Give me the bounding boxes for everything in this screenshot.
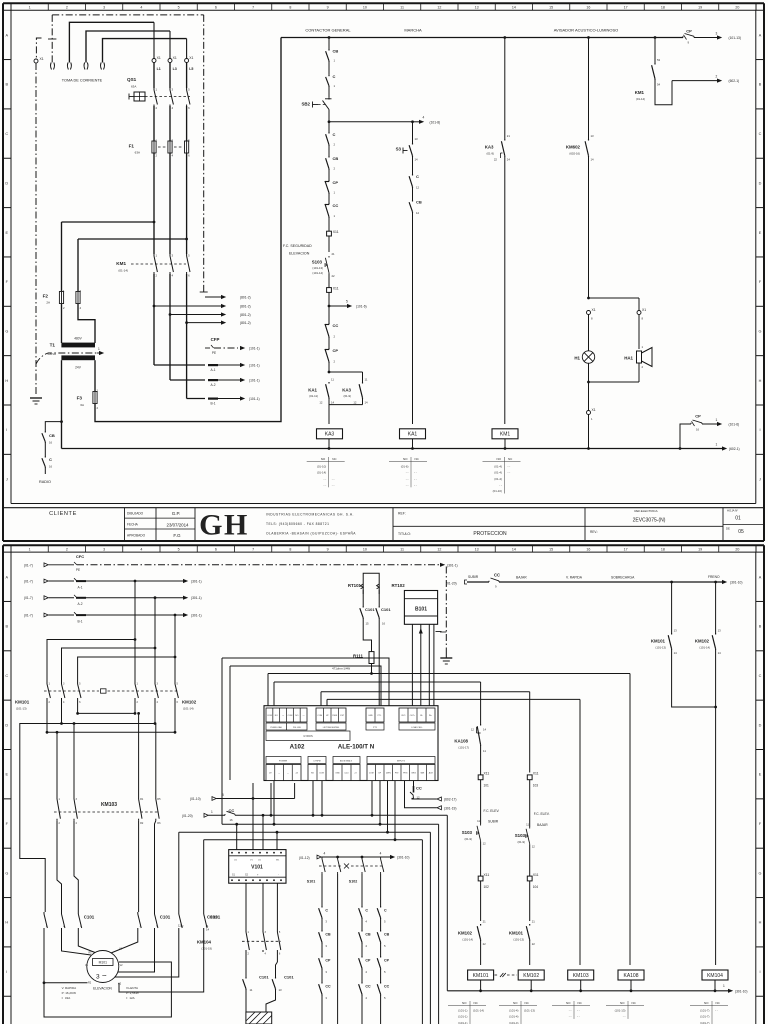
- pushbutton S3: [412, 143, 414, 145]
- svg-text:2: 2: [66, 6, 68, 10]
- svg-text:(101-13): (101-13): [655, 646, 666, 650]
- svg-text:C101: C101: [365, 607, 375, 612]
- svg-text:KM101: KM101: [15, 700, 30, 705]
- phase drops to KM101/KM102 banks: [134, 581, 136, 682]
- svg-text:(01-4): (01-4): [494, 471, 502, 475]
- toma de corriente inlet hooks: [50, 63, 53, 70]
- contactor KM104 contacts: [245, 883, 247, 930]
- svg-text:22: 22: [494, 158, 498, 162]
- svg-text:(101-7): (101-7): [700, 1015, 709, 1019]
- svg-text:---: ---: [303, 715, 305, 717]
- svg-text:GND: GND: [368, 715, 373, 717]
- svg-text:11: 11: [400, 6, 404, 10]
- svg-text:1: 1: [211, 810, 213, 814]
- svg-text:C: C: [5, 674, 8, 678]
- svg-text:21: 21: [332, 252, 336, 256]
- svg-text:TAR: TAR: [420, 772, 424, 775]
- svg-text:4: 4: [423, 116, 425, 120]
- svg-text:17: 17: [624, 6, 628, 10]
- svg-text:APROBADO: APROBADO: [127, 534, 146, 538]
- svg-text:L3: L3: [173, 67, 177, 71]
- svg-text:5: 5: [346, 300, 348, 304]
- svg-text:DWN: DWN: [332, 715, 337, 717]
- svg-text:HA1: HA1: [624, 356, 633, 361]
- 0V drop to rail: [446, 815, 448, 991]
- svg-text:CB: CB: [384, 933, 390, 937]
- svg-text:INDUSTRIAS ELECTROMECANICAS GH: INDUSTRIAS ELECTROMECANICAS GH. S.A.: [266, 512, 354, 516]
- svg-text:I: I: [6, 970, 7, 974]
- svg-text:NO: NO: [321, 457, 326, 461]
- svg-text:14: 14: [206, 928, 210, 932]
- svg-text:(301-19): (301-19): [444, 806, 456, 810]
- svg-text:(602-1): (602-1): [729, 79, 740, 83]
- svg-text:- -: - -: [569, 1015, 572, 1019]
- svg-text:KM104: KM104: [707, 973, 723, 979]
- svg-text:S103: S103: [462, 830, 473, 835]
- svg-text:KM103: KM103: [101, 802, 117, 808]
- coil row KM101 KM102 KM103 KA108 KM104: [468, 970, 494, 980]
- svg-text:C: C: [365, 909, 368, 913]
- svg-text:(01-4): (01-4): [494, 464, 502, 468]
- terminal X11: [327, 231, 332, 236]
- coil drops to rail: [480, 980, 482, 991]
- svg-text:LIFTING/SWING: LIFTING/SWING: [323, 727, 340, 729]
- svg-text:D: D: [5, 181, 8, 185]
- svg-text:S103: S103: [312, 260, 323, 265]
- svg-text:---: ---: [282, 715, 284, 717]
- svg-text:B: B: [759, 625, 762, 629]
- svg-text:3: 3: [716, 32, 718, 36]
- contacts CC CP lower: [328, 323, 330, 325]
- svg-text:14: 14: [415, 158, 419, 162]
- lamp branch rejoin: [588, 363, 590, 410]
- svg-text:16: 16: [49, 465, 53, 469]
- svg-text:A-2: A-2: [211, 383, 216, 387]
- svg-text:11: 11: [365, 378, 368, 382]
- border frame: [3, 2, 764, 4]
- mechanical linkage KM101-KM102: [44, 690, 99, 692]
- svg-text:(101-13): (101-13): [729, 36, 741, 40]
- svg-text:MARCHA: MARCHA: [404, 28, 422, 33]
- svg-text:01: 01: [735, 516, 741, 522]
- svg-text:(01-20): (01-20): [446, 582, 457, 586]
- svg-text:REF.ELECTRICA: REF.ELECTRICA: [634, 509, 657, 513]
- svg-text:14: 14: [483, 728, 487, 732]
- svg-text:12: 12: [416, 186, 420, 190]
- svg-text:KM1: KM1: [635, 90, 645, 95]
- bajar branch X11 103: [527, 775, 532, 780]
- svg-text:CB: CB: [333, 49, 339, 54]
- wire L5 down with tap: [186, 153, 188, 254]
- svg-text:PE: PE: [76, 568, 80, 572]
- svg-text:(101-4): (101-4): [509, 1015, 518, 1019]
- svg-text:(01-9): (01-9): [465, 837, 473, 841]
- secondary left to 0V rail: [61, 360, 63, 448]
- svg-text:KA3: KA3: [342, 388, 351, 393]
- svg-text:QS1: QS1: [127, 77, 137, 82]
- svg-text:23/07/2014: 23/07/2014: [167, 522, 190, 527]
- contact CP top right: [682, 36, 684, 38]
- svg-text:10: 10: [363, 6, 367, 10]
- svg-text:I: I: [759, 428, 760, 432]
- thermal contacts RT101 RT102: [363, 573, 379, 594]
- exit A-1: [154, 364, 205, 366]
- svg-text:T1: T1: [50, 343, 56, 348]
- cross rail y824: [222, 823, 439, 825]
- svg-text:C: C: [5, 132, 8, 136]
- wires F2 to T1: [61, 304, 63, 343]
- coil KA3: [317, 429, 343, 439]
- svg-text:TOMA DE CORRIENTE: TOMA DE CORRIENTE: [62, 79, 103, 83]
- 0V rail page2: [447, 990, 728, 992]
- terminal X1 PE: [34, 59, 38, 63]
- terminal X11 lower: [327, 288, 332, 293]
- svg-text:A102: A102: [290, 744, 305, 751]
- svg-text:INPUTS: INPUTS: [397, 760, 406, 762]
- svg-text:12: 12: [471, 728, 475, 732]
- svg-text:G: G: [759, 329, 762, 333]
- svg-text:CC: CC: [494, 573, 500, 578]
- svg-text:2EVC3075-(N): 2EVC3075-(N): [633, 518, 666, 524]
- svg-text:- -: - -: [406, 483, 409, 487]
- wire RT102 down to A102: [378, 619, 380, 706]
- A102 bottom wires to cross rails: [273, 781, 275, 825]
- svg-text:9: 9: [327, 6, 329, 10]
- lamp H1: [582, 351, 594, 363]
- svg-text:KM104: KM104: [197, 940, 212, 945]
- terminal X11 104: [527, 876, 532, 881]
- contacts C101 11/13: [245, 952, 247, 977]
- svg-text:KM1: KM1: [500, 432, 511, 438]
- svg-text:22: 22: [332, 274, 336, 278]
- svg-text:C101: C101: [259, 975, 269, 980]
- svg-text:GND: GND: [335, 773, 340, 775]
- 0V rail page1: [62, 448, 723, 450]
- exit A-2: [170, 379, 205, 381]
- svg-text:CP: CP: [325, 959, 331, 963]
- svg-text:KM101: KM101: [473, 973, 489, 979]
- svg-text:I: I: [759, 970, 760, 974]
- svg-text:C: C: [325, 909, 328, 913]
- svg-text:- -: - -: [406, 471, 409, 475]
- svg-text:OUT+: OUT+: [410, 715, 416, 717]
- svg-text:- -: - -: [623, 1015, 626, 1019]
- svg-text:AVISADOR ACUSTICO-LUMINOSO: AVISADOR ACUSTICO-LUMINOSO: [554, 28, 619, 33]
- wires KM1 down / exits A-1 A-2 B-1: [153, 274, 155, 365]
- svg-text:CC: CC: [416, 786, 422, 791]
- svg-text:A-1: A-1: [211, 368, 216, 372]
- left bypass wire to C101-1: [20, 724, 62, 913]
- border frame: [3, 544, 764, 546]
- svg-text:C: C: [759, 132, 762, 136]
- svg-text:(01-7): (01-7): [24, 563, 33, 567]
- svg-text:E: E: [759, 231, 762, 235]
- svg-text:KA3: KA3: [485, 145, 494, 150]
- svg-text:54: 54: [657, 83, 661, 87]
- PE dash-dot left vertical with X1: [36, 38, 41, 58]
- svg-text:KM102: KM102: [523, 973, 539, 979]
- bank cross wiring: [78, 700, 135, 713]
- svg-text:CC: CC: [333, 323, 339, 328]
- svg-text:7: 7: [252, 6, 254, 10]
- wire bundle A102 to right columns: [222, 658, 389, 706]
- svg-text:(301-1): (301-1): [191, 580, 202, 584]
- svg-text:10: 10: [363, 548, 367, 552]
- svg-text:(101-1): (101-1): [249, 347, 260, 351]
- svg-text:1: 1: [98, 347, 100, 351]
- svg-text:(101-19): (101-19): [201, 947, 212, 951]
- svg-text:12: 12: [437, 548, 441, 552]
- svg-text:C: C: [49, 457, 52, 462]
- svg-text:CB: CB: [365, 933, 371, 937]
- svg-text:20: 20: [735, 548, 739, 552]
- svg-text:X1: X1: [592, 308, 596, 312]
- svg-text:(01-9): (01-9): [518, 840, 526, 844]
- svg-text:A: A: [6, 575, 9, 579]
- control top bus: [281, 37, 683, 39]
- svg-text:(01-10): (01-10): [317, 464, 326, 468]
- svg-text:IN-: IN-: [420, 715, 423, 717]
- svg-text:RADIO: RADIO: [39, 480, 51, 484]
- svg-text:KM1: KM1: [116, 261, 126, 266]
- svg-text:E: E: [759, 773, 762, 777]
- svg-text:(101-13): (101-13): [615, 1008, 626, 1012]
- svg-text:2SI.LSD: 2SI.LSD: [293, 727, 302, 729]
- svg-text:CP: CP: [695, 414, 701, 419]
- svg-text:CFP: CFP: [211, 337, 220, 342]
- PE arrow to 801-2: [205, 296, 221, 298]
- svg-text:KA1: KA1: [408, 432, 418, 438]
- wire 2 to (602-1): [672, 80, 717, 82]
- svg-text:S3: S3: [396, 147, 402, 152]
- PE dash-dot vertical right: [203, 15, 205, 294]
- coil KM1: [492, 429, 518, 439]
- svg-text:(101-8): (101-8): [430, 120, 441, 124]
- svg-text:C101: C101: [84, 915, 95, 920]
- svg-text:18: 18: [661, 548, 665, 552]
- svg-text:CB: CB: [333, 156, 339, 161]
- svg-text:X11: X11: [533, 772, 539, 776]
- svg-text:DE: DE: [726, 527, 730, 531]
- terminal X11 102: [478, 876, 483, 881]
- svg-text:V101: V101: [251, 865, 263, 871]
- svg-text:C: C: [759, 674, 762, 678]
- svg-text:13: 13: [591, 134, 595, 138]
- svg-text:13: 13: [674, 629, 678, 633]
- svg-text:(01-14): (01-14): [317, 471, 326, 475]
- svg-text:NO: NO: [403, 457, 408, 461]
- svg-text:12: 12: [483, 842, 487, 846]
- svg-text:C101: C101: [381, 607, 391, 612]
- svg-text:H: H: [759, 921, 762, 925]
- svg-text:14: 14: [591, 158, 595, 162]
- svg-text:X11: X11: [533, 873, 539, 877]
- A102 bottom terminal cells: [266, 757, 301, 764]
- svg-text:CC: CC: [333, 203, 339, 208]
- svg-text:11: 11: [250, 988, 253, 992]
- svg-text:1: 1: [716, 443, 718, 447]
- motor wiring: [43, 930, 45, 983]
- svg-text:19: 19: [698, 548, 702, 552]
- tap to F2-3: [78, 238, 187, 240]
- svg-text:X11: X11: [484, 772, 490, 776]
- svg-text:A: A: [759, 575, 762, 579]
- title block: [3, 507, 764, 509]
- terminals X1 L1 L3 L5: [152, 59, 156, 63]
- svg-text:53: 53: [657, 58, 661, 62]
- svg-text:BAJAR: BAJAR: [537, 823, 548, 827]
- svg-text:CONTACTOR GENERAL: CONTACTOR GENERAL: [305, 28, 351, 33]
- svg-text:L1: L1: [157, 67, 161, 71]
- svg-text:471ohm-1/4W: 471ohm-1/4W: [332, 667, 350, 671]
- svg-text:- -: - -: [499, 483, 502, 487]
- svg-text:- -: - -: [414, 477, 417, 481]
- svg-text:KM102: KM102: [695, 639, 710, 644]
- svg-text:FRENO: FRENO: [708, 575, 720, 579]
- svg-text:P: 16,2KW: P: 16,2KW: [62, 991, 77, 995]
- tap 5 to (101-6): [328, 305, 331, 308]
- svg-text:430VA: 430VA: [47, 352, 56, 356]
- svg-text:X11: X11: [333, 230, 339, 234]
- svg-text:104: 104: [533, 885, 539, 889]
- svg-text:GYROS: GYROS: [303, 734, 313, 738]
- contact KM101 13/14 freno: [671, 582, 673, 633]
- svg-text:X1: X1: [157, 56, 161, 60]
- terminals X1 lamp: [587, 311, 591, 315]
- svg-text:6: 6: [215, 6, 217, 10]
- svg-text:COM: COM: [319, 773, 324, 775]
- svg-text:CC: CC: [365, 985, 371, 989]
- svg-text:12: 12: [437, 6, 441, 10]
- svg-text:2: 2: [66, 548, 68, 552]
- wires down to KM103: [56, 732, 58, 797]
- +24V rail to control bus: [95, 38, 281, 422]
- svg-text:9: 9: [327, 548, 329, 552]
- svg-text:X1: X1: [40, 57, 44, 61]
- svg-text:COM: COM: [288, 715, 293, 717]
- svg-text:KM101: KM101: [651, 639, 666, 644]
- svg-text:D: D: [759, 723, 762, 727]
- svg-text:PROTECCION: PROTECCION: [473, 531, 507, 537]
- svg-text:S102: S102: [349, 880, 357, 884]
- svg-text:F.G: F.G: [173, 533, 181, 538]
- svg-text:5: 5: [222, 793, 224, 797]
- svg-text:- -: - -: [414, 483, 417, 487]
- svg-text:D: D: [759, 181, 762, 185]
- svg-text:REV.:: REV.:: [590, 530, 598, 534]
- svg-text:21: 21: [483, 920, 487, 924]
- svg-text:C101: C101: [207, 915, 218, 920]
- svg-text:(01-6): (01-6): [401, 464, 409, 468]
- svg-text:A-2: A-2: [78, 602, 83, 606]
- svg-text:(01-7): (01-7): [24, 580, 33, 584]
- svg-text:HOJA N°: HOJA N°: [727, 509, 738, 513]
- svg-text:11: 11: [400, 548, 404, 552]
- svg-text:(101-1): (101-1): [458, 1008, 467, 1012]
- svg-text:21: 21: [507, 134, 511, 138]
- svg-text:B: B: [759, 83, 762, 87]
- ground symbol T1 PE: [30, 397, 42, 399]
- svg-text:13: 13: [279, 988, 283, 992]
- svg-text:(301-10): (301-10): [397, 856, 409, 860]
- svg-text:(01-11): (01-11): [309, 394, 318, 398]
- svg-text:NO: NO: [704, 1001, 709, 1005]
- svg-text:21: 21: [532, 920, 536, 924]
- svg-text:6: 6: [215, 548, 217, 552]
- terminal X1 bottom: [587, 411, 591, 415]
- svg-text:14: 14: [718, 651, 722, 655]
- svg-text:8: 8: [289, 548, 291, 552]
- svg-text:C: C: [333, 132, 336, 137]
- svg-text:(101-1): (101-1): [249, 364, 260, 368]
- svg-text:11: 11: [483, 749, 486, 753]
- svg-text:(602-16): (602-16): [569, 152, 580, 156]
- svg-text:I: 32A: I: 32A: [62, 996, 71, 1000]
- svg-text:DIBUJADO: DIBUJADO: [127, 512, 144, 516]
- button columns C CB CP CC: [321, 874, 323, 906]
- resistor R111: [363, 619, 371, 652]
- svg-text:- -: - -: [577, 1015, 580, 1019]
- svg-text:- -: - -: [323, 477, 326, 481]
- svg-text:SB2: SB2: [301, 102, 310, 107]
- svg-text:X11: X11: [333, 287, 339, 291]
- svg-text:(01-14): (01-14): [118, 269, 128, 273]
- svg-text:V. RAPIDA: V. RAPIDA: [566, 576, 583, 580]
- svg-text:X1: X1: [592, 408, 596, 412]
- svg-text:F.C. SEGURIDAD: F.C. SEGURIDAD: [283, 244, 312, 248]
- svg-text:18: 18: [661, 6, 665, 10]
- column ruler numbers: [10, 545, 12, 552]
- svg-text:C101: C101: [284, 975, 294, 980]
- svg-text:24: 24: [507, 158, 511, 162]
- svg-text:I: 12A: I: 12A: [126, 996, 135, 1000]
- svg-text:V.LENTA: V.LENTA: [126, 986, 138, 990]
- svg-text:16: 16: [696, 428, 700, 432]
- svg-text:SOBRECARGA: SOBRECARGA: [611, 576, 635, 580]
- svg-text:12: 12: [416, 211, 420, 215]
- svg-text:CP: CP: [384, 959, 390, 963]
- svg-text:4: 4: [140, 548, 142, 552]
- svg-text:14: 14: [512, 548, 516, 552]
- svg-text:102: 102: [484, 885, 490, 889]
- svg-text:FECHA: FECHA: [127, 523, 139, 527]
- svg-text:3: 3: [96, 974, 100, 981]
- svg-text:KM101: KM101: [509, 931, 524, 936]
- svg-text:14: 14: [512, 6, 516, 10]
- svg-text:14: 14: [365, 401, 369, 405]
- selector contacts S101 S102: [321, 857, 323, 859]
- radio branch CB C: [45, 422, 61, 431]
- svg-text:1: 1: [716, 418, 718, 422]
- svg-text:A-1: A-1: [78, 586, 83, 590]
- svg-text:(101-4): (101-4): [509, 1008, 518, 1012]
- svg-text:X11: X11: [484, 873, 490, 877]
- svg-text:KA108: KA108: [623, 973, 638, 979]
- KM602 contact column: [587, 36, 590, 39]
- svg-text:8: 8: [289, 6, 291, 10]
- svg-text:H: H: [759, 379, 762, 383]
- svg-text:(101-14): (101-14): [183, 707, 194, 711]
- svg-text:(101-6): (101-6): [729, 423, 740, 427]
- wires QS1 to F1: [153, 106, 155, 141]
- svg-text:(101-13): (101-13): [312, 266, 323, 270]
- svg-text:(101-17): (101-17): [458, 746, 469, 750]
- svg-text:RT102: RT102: [392, 583, 406, 588]
- svg-text:16: 16: [382, 622, 386, 626]
- PE dash-dot drop with ground: [445, 567, 447, 655]
- load cell amplifier B101: [404, 591, 437, 625]
- svg-text:F3: F3: [77, 396, 83, 401]
